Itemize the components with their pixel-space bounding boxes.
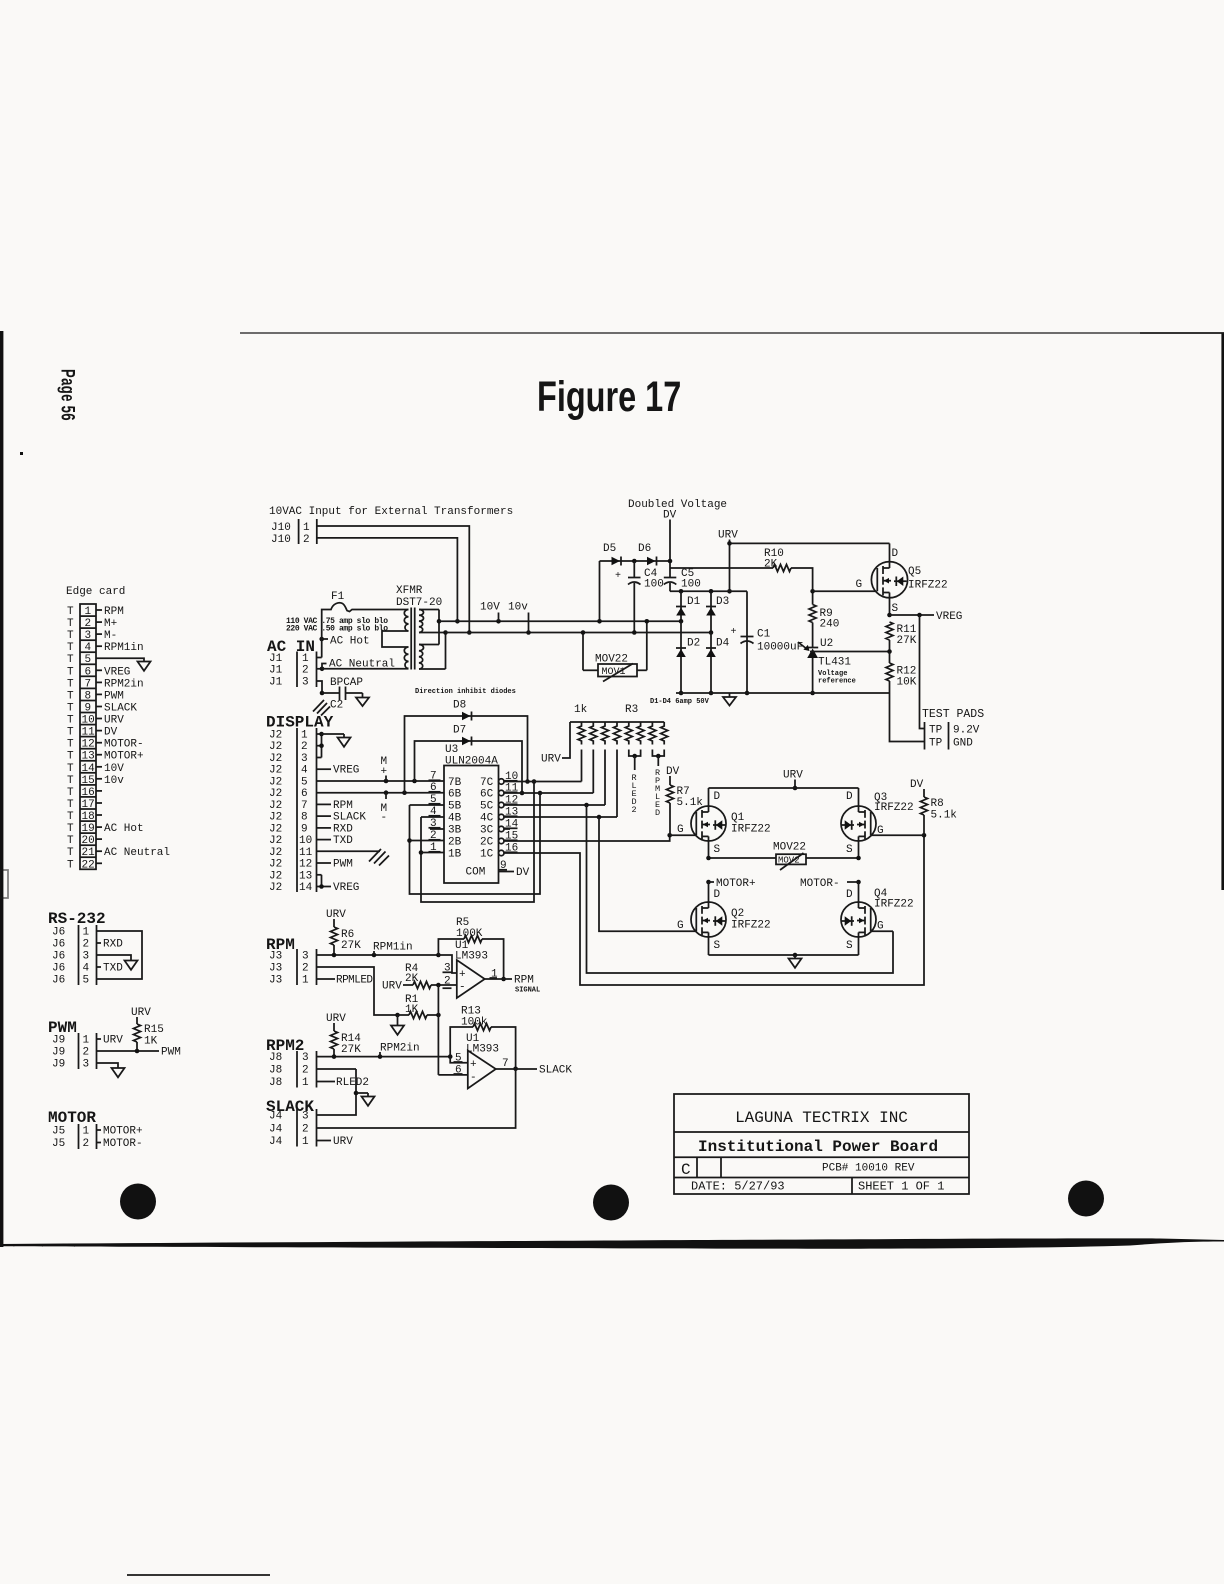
- net M- label: [381, 793, 388, 824]
- svg-text:J1: J1: [269, 653, 283, 665]
- wire J8.3 RPM2in to U1b + input: [317, 1054, 468, 1062]
- svg-text:URV: URV: [718, 530, 738, 542]
- resistor R1 1K: [395, 994, 441, 1019]
- svg-text:AC Neutral: AC Neutral: [104, 847, 170, 859]
- svg-text:2: 2: [301, 741, 308, 753]
- svg-text:T: T: [67, 606, 74, 618]
- svg-text:2: 2: [302, 963, 309, 975]
- svg-text:-: -: [459, 982, 466, 994]
- svg-text:Q5: Q5: [908, 566, 921, 578]
- svg-text:2B: 2B: [448, 837, 462, 849]
- svg-text:2: 2: [83, 939, 90, 951]
- wire U3 3C stub: [504, 828, 510, 830]
- net RLED2 (R3.5/R3.6): [629, 750, 641, 816]
- svg-text:5.1k: 5.1k: [931, 810, 958, 822]
- svg-text:SLACK: SLACK: [104, 703, 137, 715]
- net URV (R14 top): [326, 1013, 346, 1031]
- svg-text:+: +: [731, 627, 737, 638]
- svg-text:AC Hot: AC Hot: [330, 636, 370, 648]
- net MOTOR- at J5.2: [97, 1138, 143, 1150]
- svg-text:J2: J2: [269, 800, 282, 812]
- svg-text:J2: J2: [269, 847, 282, 859]
- svg-text:G: G: [856, 579, 863, 591]
- svg-text:6B: 6B: [448, 789, 462, 801]
- svg-text:VREG: VREG: [333, 882, 359, 894]
- svg-text:2C: 2C: [480, 837, 494, 849]
- svg-text:J10: J10: [271, 534, 291, 546]
- wire U3 1C output to Q3 gate: [504, 833, 926, 985]
- wire R3.3 to 5C: [604, 750, 606, 806]
- shunt regulator U2 TL431: [798, 638, 856, 695]
- connector J3: [269, 949, 317, 987]
- svg-text:RPM: RPM: [333, 800, 353, 812]
- svg-text:J1: J1: [269, 677, 283, 689]
- svg-text:D: D: [846, 791, 853, 803]
- svg-text:5.1k: 5.1k: [677, 797, 704, 809]
- svg-text:2: 2: [632, 805, 637, 815]
- net RPM1in label: [373, 942, 413, 956]
- svg-text:2: 2: [302, 1065, 309, 1077]
- svg-text:10v: 10v: [104, 775, 124, 787]
- svg-text:14: 14: [299, 882, 313, 894]
- svg-text:18: 18: [82, 811, 95, 823]
- svg-text:MOTOR-: MOTOR-: [104, 739, 144, 751]
- wire gate node (R10/R9 vertical): [810, 589, 876, 605]
- svg-text:5: 5: [301, 777, 308, 789]
- svg-text:2: 2: [83, 1047, 90, 1059]
- net URV feed: [783, 770, 803, 791]
- svg-text:MOTOR: MOTOR: [48, 1109, 96, 1127]
- svg-text:T: T: [67, 690, 74, 702]
- svg-text:5C: 5C: [480, 801, 494, 813]
- svg-text:Page 56: Page 56: [57, 369, 78, 421]
- svg-text:URV: URV: [104, 715, 124, 727]
- svg-text:27K: 27K: [341, 940, 361, 952]
- wire edge card pin5 to ground: [96, 658, 151, 671]
- svg-text:T: T: [67, 859, 74, 871]
- wire doubler row: [597, 559, 672, 624]
- svg-text:13: 13: [299, 870, 312, 882]
- net URV (R15 top): [131, 1007, 151, 1024]
- svg-text:17: 17: [82, 799, 95, 811]
- wire bridge mid rail with varistor MOV2: [706, 856, 861, 861]
- wire URV to R3: [541, 722, 570, 766]
- svg-text:URV: URV: [326, 909, 346, 921]
- svg-text:MOTOR-: MOTOR-: [800, 878, 840, 890]
- svg-text:220 VAC .50 amp slo blo: 220 VAC .50 amp slo blo: [286, 624, 388, 633]
- wire J3.2 to R1: [317, 967, 398, 1015]
- diode D3: [706, 591, 729, 635]
- svg-text:J2: J2: [269, 765, 282, 777]
- wire VREG to TP 9.2V: [920, 615, 925, 729]
- svg-text:3: 3: [83, 1059, 90, 1071]
- wire J10 pin1 to 10v bus: [317, 526, 472, 635]
- svg-text:D: D: [714, 889, 721, 901]
- svg-text:3B: 3B: [448, 825, 462, 837]
- connector J6: [52, 925, 97, 987]
- net PWM at J2.12: [317, 859, 353, 871]
- resistor R13 100k feedback: [450, 1006, 518, 1072]
- svg-text:10V: 10V: [480, 602, 500, 614]
- svg-text:Q1: Q1: [731, 812, 745, 824]
- ground at J2.1: [322, 734, 351, 747]
- svg-text:TEST PADS: TEST PADS: [922, 708, 984, 721]
- net SLACK at J2.8: [317, 812, 367, 824]
- svg-text:SIGNAL: SIGNAL: [515, 987, 540, 995]
- svg-text:100: 100: [644, 579, 664, 591]
- svg-text:J4: J4: [269, 1136, 283, 1148]
- diode D6: [638, 543, 657, 566]
- ground at J8.2: [356, 1093, 375, 1106]
- svg-text:J9: J9: [52, 1059, 65, 1071]
- resistor R9 240: [809, 605, 839, 648]
- wire J2.11 to earth ground: [317, 849, 390, 866]
- U3 pin 9 COM to DV: [499, 860, 530, 879]
- wire J4.2 to SLACK output: [317, 1069, 516, 1128]
- connector J4: [269, 1109, 317, 1148]
- svg-text:RPM2in: RPM2in: [104, 678, 144, 690]
- resistor R15 1K: [134, 1024, 164, 1051]
- svg-text:14: 14: [82, 763, 96, 775]
- svg-text:1k: 1k: [574, 704, 588, 716]
- svg-text:LAGUNA TECTRIX INC: LAGUNA TECTRIX INC: [735, 1109, 908, 1127]
- wire URV to Q5 drain: [730, 542, 890, 544]
- svg-text:COM: COM: [466, 867, 486, 879]
- svg-text:RXD: RXD: [333, 823, 353, 835]
- svg-text:3: 3: [302, 1111, 309, 1123]
- svg-text:DST7-20: DST7-20: [396, 597, 442, 609]
- wire 4C to Q2 gate: [599, 817, 695, 931]
- svg-text:J2: J2: [269, 882, 282, 894]
- svg-text:J3: J3: [269, 963, 282, 975]
- svg-text:1: 1: [83, 1126, 90, 1138]
- svg-text:R3: R3: [625, 704, 638, 716]
- svg-text:5B: 5B: [448, 801, 462, 813]
- wire R3.2 to 6C: [592, 750, 594, 794]
- svg-text:MOV1: MOV1: [602, 667, 626, 678]
- resistor R12 10K: [886, 652, 917, 694]
- svg-text:Institutional Power Board: Institutional Power Board: [698, 1138, 938, 1156]
- svg-text:2K: 2K: [405, 973, 419, 985]
- svg-text:U2: U2: [820, 638, 833, 650]
- svg-text:VREG: VREG: [104, 666, 130, 678]
- svg-text:22: 22: [82, 859, 95, 871]
- diode D5: [603, 543, 621, 566]
- svg-text:10V: 10V: [104, 763, 124, 775]
- svg-text:D5: D5: [603, 543, 616, 555]
- svg-text:G: G: [677, 824, 684, 836]
- wire J10 pin2 to 10V bus: [317, 538, 460, 624]
- svg-text:J5: J5: [52, 1138, 65, 1150]
- svg-text:M+: M+: [104, 618, 117, 630]
- svg-text:J3: J3: [269, 951, 282, 963]
- svg-text:100: 100: [681, 579, 701, 591]
- svg-text:J8: J8: [269, 1077, 282, 1089]
- svg-text:BPCAP: BPCAP: [330, 677, 363, 689]
- svg-text:7B: 7B: [448, 777, 462, 789]
- svg-text:D4: D4: [716, 638, 730, 650]
- svg-text:1: 1: [83, 927, 90, 939]
- transistor Q2 IRFZ22: [677, 882, 771, 955]
- svg-text:D7: D7: [453, 725, 466, 737]
- U3 right pin numbers: [505, 771, 519, 855]
- svg-text:D: D: [892, 548, 899, 560]
- resistor R14 27K: [331, 1031, 362, 1057]
- svg-text:6: 6: [85, 666, 92, 678]
- wire U3 2C output to Q1 gate: [504, 833, 695, 841]
- wire loop 4B/1B to 7C: [419, 779, 537, 902]
- svg-text:TXD: TXD: [333, 835, 353, 847]
- wire J9.3 to ground: [97, 1063, 125, 1077]
- net RXD at J2.9: [317, 823, 354, 835]
- svg-text:T: T: [67, 630, 74, 642]
- title block frame: [674, 1094, 969, 1194]
- svg-text:1: 1: [83, 1035, 90, 1047]
- svg-text:URV: URV: [103, 1035, 123, 1047]
- svg-text:MOTOR+: MOTOR+: [104, 751, 144, 763]
- svg-text:1: 1: [302, 975, 309, 987]
- svg-text:1K: 1K: [144, 1036, 158, 1048]
- fuse F1: [322, 591, 409, 658]
- svg-text:J6: J6: [52, 963, 65, 975]
- svg-text:+: +: [615, 571, 621, 582]
- svg-text:J2: J2: [269, 835, 282, 847]
- diode D2: [676, 621, 700, 695]
- ground at R1: [391, 1015, 404, 1035]
- svg-text:10v: 10v: [508, 602, 528, 614]
- svg-text:PWM: PWM: [333, 859, 353, 871]
- svg-text:PWM: PWM: [104, 690, 124, 702]
- svg-text:13: 13: [82, 751, 95, 763]
- svg-text:VREG: VREG: [936, 611, 962, 623]
- svg-text:DV: DV: [910, 779, 924, 791]
- svg-text:J2: J2: [269, 812, 282, 824]
- net M+ label: [381, 756, 388, 781]
- wire R3.4 to 4C: [616, 750, 618, 818]
- svg-text:15: 15: [82, 775, 95, 787]
- svg-text:J2: J2: [269, 753, 282, 765]
- svg-text:RPM: RPM: [104, 606, 124, 618]
- svg-text:XFMR: XFMR: [396, 585, 423, 597]
- resistor network R3 1k: [570, 704, 668, 745]
- svg-text:DV: DV: [104, 727, 118, 739]
- svg-text:Direction inhibit diodes: Direction inhibit diodes: [415, 688, 516, 696]
- transistor Q4 IRFZ22: [841, 882, 914, 955]
- svg-text:RPM1in: RPM1in: [104, 642, 144, 654]
- svg-text:4: 4: [85, 642, 92, 654]
- net 10v bus: [446, 602, 712, 635]
- svg-text:J2: J2: [269, 741, 282, 753]
- svg-text:D2: D2: [687, 638, 700, 650]
- svg-text:J4: J4: [269, 1124, 283, 1136]
- svg-text:J6: J6: [52, 975, 65, 987]
- net RPMLED (R3.7/R3.8): [652, 750, 664, 819]
- svg-text:R15: R15: [144, 1024, 164, 1036]
- label fuse ratings: [286, 617, 388, 634]
- svg-text:IRFZ22: IRFZ22: [731, 824, 771, 836]
- svg-text:J6: J6: [52, 939, 65, 951]
- svg-text:T: T: [67, 715, 74, 727]
- svg-text:J3: J3: [269, 975, 282, 987]
- svg-text:URV: URV: [783, 770, 803, 782]
- svg-text:MOV22: MOV22: [773, 842, 806, 854]
- svg-text:1C: 1C: [480, 849, 494, 861]
- svg-text:J2: J2: [269, 823, 282, 835]
- net 10V bus: [439, 602, 681, 624]
- svg-text:T: T: [67, 654, 74, 666]
- ground symbol on bus: [723, 693, 736, 706]
- svg-text:D6: D6: [638, 543, 651, 555]
- svg-text:2: 2: [302, 665, 309, 677]
- connector J1: [269, 652, 317, 689]
- svg-text:J9: J9: [52, 1035, 65, 1047]
- svg-text:11: 11: [299, 847, 313, 859]
- svg-text:URV: URV: [131, 1007, 151, 1019]
- net RPM at J2.7: [317, 800, 353, 812]
- svg-text:IRFZ22: IRFZ22: [731, 920, 771, 932]
- resistor R11 27K: [886, 622, 917, 654]
- net URV (R6 top): [326, 909, 346, 927]
- svg-text:LM393: LM393: [466, 1044, 499, 1056]
- resistor R10 2K: [764, 548, 813, 591]
- capacitor C2 BPCAP: [322, 677, 363, 712]
- svg-text:T: T: [67, 823, 74, 835]
- svg-text:RXD: RXD: [103, 939, 123, 951]
- svg-text:T: T: [67, 787, 74, 799]
- svg-text:RPM2in: RPM2in: [380, 1043, 420, 1055]
- svg-text:URV: URV: [382, 981, 402, 993]
- transformer XFMR DST7-20: [322, 585, 446, 670]
- svg-text:J2: J2: [269, 777, 282, 789]
- wire bridge bottom rail: [709, 953, 859, 958]
- wire J2.5 to U3 7B (net M+): [317, 779, 445, 784]
- varistor MOV2 MOV22: [773, 842, 806, 871]
- net VREG: [887, 611, 962, 623]
- svg-text:2: 2: [302, 1124, 309, 1136]
- svg-text:C1: C1: [757, 629, 771, 641]
- svg-text:PCB# 10010 REV: PCB# 10010 REV: [822, 1163, 915, 1175]
- svg-text:7: 7: [85, 678, 92, 690]
- svg-text:T: T: [67, 835, 74, 847]
- svg-text:3: 3: [85, 630, 92, 642]
- svg-text:T: T: [67, 618, 74, 630]
- svg-text:2: 2: [303, 534, 310, 546]
- svg-text:240: 240: [820, 619, 840, 631]
- svg-text:1: 1: [301, 730, 308, 742]
- wire GND to TP: [890, 693, 925, 742]
- svg-text:J6: J6: [52, 951, 65, 963]
- wire J1.1 to AC Hot: [317, 636, 370, 658]
- svg-text:D3: D3: [716, 596, 729, 608]
- svg-text:F1: F1: [331, 591, 345, 603]
- svg-text:DATE: 5/27/93: DATE: 5/27/93: [691, 1180, 785, 1194]
- svg-text:2: 2: [85, 618, 92, 630]
- svg-text:T: T: [67, 666, 74, 678]
- wire J9.2 to PWM: [97, 1047, 181, 1059]
- ground (earth) at J1.3: [313, 691, 330, 716]
- varistor MOV1 MOV22: [581, 619, 649, 682]
- wire U3 6C output row: [504, 792, 593, 794]
- svg-text:J2: J2: [269, 870, 282, 882]
- svg-text:10K: 10K: [897, 677, 917, 689]
- svg-text:S: S: [846, 940, 853, 952]
- wire U3 5C output row: [504, 803, 605, 808]
- net MOTOR-: [800, 878, 861, 890]
- svg-text:T: T: [67, 727, 74, 739]
- svg-text:TL431: TL431: [818, 657, 851, 669]
- svg-text:URV: URV: [541, 754, 561, 766]
- svg-text:+: +: [459, 969, 466, 981]
- svg-text:reference: reference: [818, 678, 856, 686]
- svg-text:J2: J2: [269, 730, 282, 742]
- svg-text:+: +: [470, 1059, 477, 1071]
- svg-text:J10: J10: [271, 522, 291, 534]
- diode D7: [415, 725, 525, 796]
- svg-text:RPMLED: RPMLED: [336, 975, 373, 987]
- svg-text:R8: R8: [931, 798, 944, 810]
- wire J6 pin1-pin5 loop: [97, 931, 143, 979]
- wire U1a output net RPM SIGNAL: [485, 975, 541, 995]
- svg-text:6: 6: [301, 788, 308, 800]
- net RPM2in label: [380, 1043, 420, 1057]
- svg-text:S: S: [714, 940, 721, 952]
- transistor Q5 IRFZ22: [856, 543, 948, 615]
- svg-text:T: T: [67, 763, 74, 775]
- svg-text:12: 12: [299, 859, 312, 871]
- svg-text:C: C: [681, 1161, 691, 1179]
- connector J5: [52, 1124, 97, 1150]
- ground at bridge: [789, 955, 802, 968]
- svg-text:SLACK: SLACK: [539, 1065, 572, 1077]
- wire J1.2 AC Neutral: [317, 659, 396, 672]
- svg-text:-: -: [470, 1072, 477, 1084]
- svg-text:TP: TP: [929, 725, 943, 737]
- svg-text:J2: J2: [269, 859, 282, 871]
- svg-text:URV: URV: [326, 1013, 346, 1025]
- svg-text:URV: URV: [333, 1136, 353, 1148]
- svg-text:3: 3: [302, 677, 309, 689]
- svg-text:T: T: [67, 799, 74, 811]
- ground after C2: [356, 693, 369, 706]
- connector J2: [269, 728, 317, 894]
- svg-text:S: S: [714, 844, 721, 856]
- svg-text:J8: J8: [269, 1052, 282, 1064]
- wire U3 7C output row: [504, 781, 582, 783]
- svg-text:Figure 17: Figure 17: [537, 374, 681, 421]
- wire J6 pin3 to ground: [97, 955, 138, 970]
- svg-text:S: S: [892, 603, 899, 615]
- svg-text:3: 3: [83, 951, 90, 963]
- svg-text:9.2V: 9.2V: [953, 725, 980, 737]
- wire J1.3 to bypass node: [317, 681, 323, 693]
- svg-text:T: T: [67, 703, 74, 715]
- wire TL431 ref to divider: [810, 651, 890, 653]
- svg-text:6C: 6C: [480, 789, 494, 801]
- wire rectified rail: [670, 589, 747, 594]
- resistor R4 2K: [382, 963, 457, 993]
- svg-text:AC Hot: AC Hot: [104, 823, 144, 835]
- svg-text:3: 3: [302, 1052, 309, 1064]
- svg-text:D: D: [714, 791, 721, 803]
- svg-text:9: 9: [301, 823, 308, 835]
- svg-text:TP: TP: [929, 738, 943, 750]
- svg-text:DV: DV: [516, 867, 530, 879]
- svg-text:27K: 27K: [897, 635, 917, 647]
- net RLED2 at J8.1: [317, 1077, 370, 1089]
- connector J9: [52, 1033, 97, 1071]
- wire ground bus: [676, 692, 890, 694]
- connector J8: [269, 1051, 317, 1089]
